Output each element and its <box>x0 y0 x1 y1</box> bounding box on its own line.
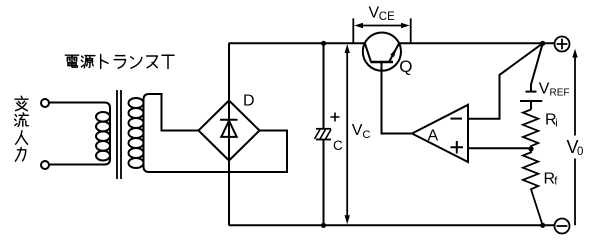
svg-text:CE: CE <box>379 11 395 23</box>
svg-text:Q: Q <box>399 57 412 76</box>
svg-text:C: C <box>333 138 343 153</box>
svg-text:D: D <box>243 93 255 110</box>
svg-text:A: A <box>428 128 439 145</box>
svg-text:REF: REF <box>550 88 570 99</box>
svg-text:i: i <box>555 118 557 130</box>
svg-text:V: V <box>539 81 550 98</box>
svg-text:C: C <box>362 129 370 141</box>
svg-text:0: 0 <box>577 146 583 158</box>
svg-text:V: V <box>352 122 363 139</box>
